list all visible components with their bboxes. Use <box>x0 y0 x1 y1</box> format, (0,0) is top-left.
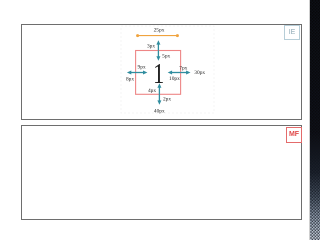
red element box <box>136 51 181 95</box>
svg-text:8px: 8px <box>126 77 134 83</box>
svg-text:30px: 30px <box>194 70 205 76</box>
svg-text:7px: 7px <box>179 65 187 71</box>
svg-text:40px: 40px <box>154 109 165 115</box>
svg-text:2px: 2px <box>163 96 171 102</box>
MF tag <box>286 127 302 143</box>
svg-text:10px: 10px <box>169 76 180 82</box>
right black textured strip <box>309 0 320 240</box>
arrow 5px down <box>157 51 159 57</box>
svg-text:9px: 9px <box>138 65 146 71</box>
arrow 8px left (margin-left) <box>131 72 136 74</box>
svg-text:25px: 25px <box>154 28 165 34</box>
panel MF (bottom white box) <box>21 125 302 220</box>
svg-text:1: 1 <box>153 57 164 89</box>
orange width line <box>137 35 178 37</box>
faint placeholder dashed outline <box>121 26 214 113</box>
arrow 4px up (padding-bottom) <box>158 87 160 94</box>
arrow 9px right (padding-left) <box>136 72 144 74</box>
arrow 2px down (margin-bottom) <box>158 94 160 101</box>
svg-text:3px: 3px <box>147 44 155 50</box>
arrow 10px right (margin-right) <box>181 72 187 74</box>
panel IE (top white box) <box>21 24 302 120</box>
IE tag <box>284 25 300 40</box>
arrow 7px left (padding-right) <box>172 72 181 74</box>
arrow 3px up <box>127 40 191 105</box>
